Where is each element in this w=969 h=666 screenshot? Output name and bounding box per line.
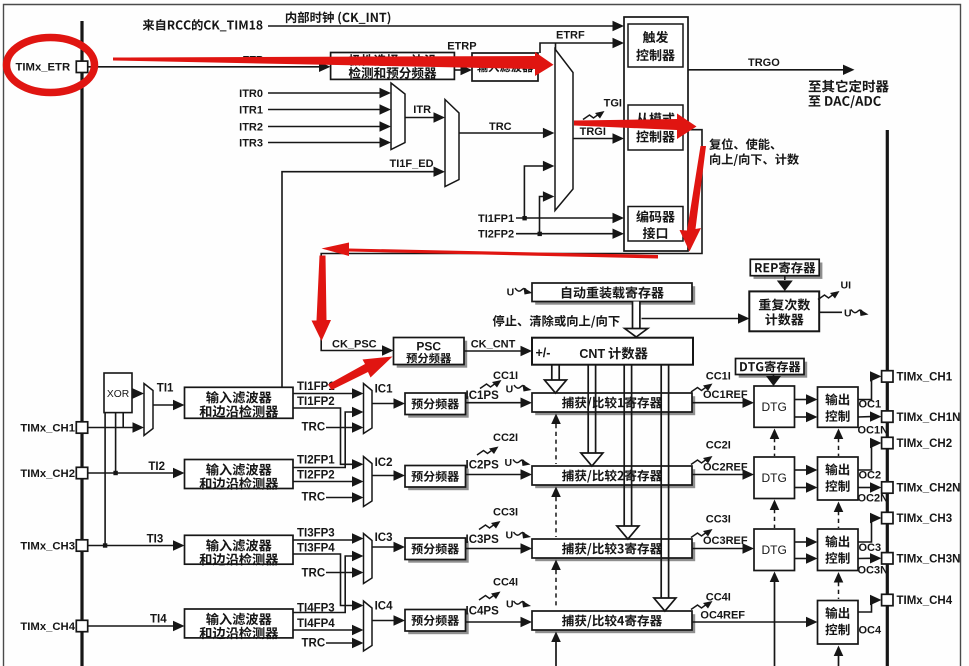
wire ITR1 bbox=[268, 109, 380, 111]
junction XOR CH2 bbox=[113, 471, 117, 475]
wire TRC row4 bbox=[326, 642, 353, 644]
svg-text:OC2N: OC2N bbox=[858, 493, 889, 505]
svg-text:ITR3: ITR3 bbox=[239, 137, 263, 149]
svg-text:TI2: TI2 bbox=[148, 461, 165, 473]
svg-text:TRC: TRC bbox=[302, 568, 326, 580]
wire ITR0 bbox=[268, 92, 380, 94]
svg-text:IC1: IC1 bbox=[375, 384, 394, 396]
mux TRC select bbox=[445, 100, 459, 187]
wire reset-enable control path bbox=[321, 130, 702, 351]
svg-text:ETRF: ETRF bbox=[556, 30, 585, 42]
svg-text:ITR: ITR bbox=[413, 104, 431, 116]
wire TI4 bbox=[88, 625, 173, 627]
label 来自RCC的CK_TIM18 bbox=[143, 19, 263, 31]
svg-text:CC3I: CC3I bbox=[706, 514, 731, 526]
svg-text:IC3: IC3 bbox=[375, 532, 393, 544]
wire CK_CNT bbox=[464, 350, 522, 352]
svg-text:IC2PS: IC2PS bbox=[466, 460, 500, 472]
block input-filter 输入滤波器 bbox=[472, 53, 538, 81]
red annotation arrow left to CK_PSC bbox=[322, 243, 659, 259]
wire IC4 bbox=[372, 620, 395, 622]
svg-text:OC2REF: OC2REF bbox=[703, 462, 748, 474]
block DTG-register DTG寄存器 bbox=[739, 362, 808, 378]
svg-text:DTG: DTG bbox=[762, 543, 787, 557]
svg-text:IC4: IC4 bbox=[375, 601, 394, 613]
label 至DAC/ADC bbox=[809, 95, 881, 108]
block prescaler PSC 预分频器 bbox=[397, 341, 468, 368]
svg-text:TI1FP2: TI1FP2 bbox=[297, 396, 335, 408]
svg-text:TI4FP4: TI4FP4 bbox=[297, 618, 335, 630]
symbol CC2I zigzag right bbox=[691, 456, 713, 465]
wire TRGO bbox=[688, 69, 843, 71]
wire TRC bbox=[459, 132, 543, 134]
mux ITR select bbox=[391, 83, 405, 150]
wire TRC row1 bbox=[326, 427, 353, 429]
red annotation arrow into PSC bbox=[328, 357, 393, 391]
wire OC4REF bbox=[692, 621, 808, 623]
block output-control row4 输出控制 bbox=[818, 601, 859, 645]
svg-text:TRC: TRC bbox=[302, 637, 326, 649]
svg-text:TIMx_CH2N: TIMx_CH2N bbox=[897, 483, 961, 495]
svg-text:TIMx_CH1: TIMx_CH1 bbox=[20, 423, 75, 435]
block controller group bbox=[624, 17, 688, 251]
wire TI3 bbox=[88, 545, 173, 547]
mux IC1 select bbox=[364, 384, 373, 434]
svg-text:TIMx_CH3N: TIMx_CH3N bbox=[897, 554, 961, 566]
symbol TGI interrupt zigzag bbox=[583, 111, 605, 120]
svg-text:TRC: TRC bbox=[302, 492, 326, 504]
block repetition-counter 重复次数计数器 bbox=[749, 291, 819, 331]
symbol CC3I zigzag right bbox=[691, 529, 713, 538]
svg-text:CC2I: CC2I bbox=[493, 432, 518, 444]
symbol CC4I zigzag left bbox=[479, 592, 501, 601]
pin TIMx_CH4 left bbox=[76, 620, 87, 631]
pin TIMx_CH1 left bbox=[76, 422, 87, 433]
pin TIMx_CH2N right bbox=[882, 482, 893, 493]
svg-text:ITR2: ITR2 bbox=[239, 121, 263, 133]
wire IC1 bbox=[372, 403, 395, 405]
symbol CC4I zigzag right bbox=[691, 601, 713, 610]
block input-filter row2 输入滤波器和边沿检测器 bbox=[185, 460, 294, 489]
svg-text:TIMx_CH4: TIMx_CH4 bbox=[20, 621, 75, 633]
svg-text:TIMx_CH3: TIMx_CH3 bbox=[20, 541, 75, 553]
wire ETRF stub to trigger mux bbox=[555, 43, 557, 51]
svg-text:OC2: OC2 bbox=[859, 470, 882, 482]
svg-text:DTG: DTG bbox=[762, 400, 787, 414]
symbol CC1I zigzag left bbox=[480, 380, 502, 389]
mux TI1 select bbox=[144, 384, 153, 436]
symbol UI interrupt zigzag bbox=[818, 291, 840, 300]
arrow into output4 from bottom bbox=[838, 655, 840, 666]
svg-text:IC4PS: IC4PS bbox=[466, 606, 500, 618]
svg-text:TIMx_ETR: TIMx_ETR bbox=[16, 61, 71, 73]
wire DTG2 to output lower bbox=[795, 487, 808, 489]
svg-text:OC3: OC3 bbox=[859, 542, 882, 554]
wire TIMx_CH1 input bbox=[88, 427, 136, 429]
block input-filter row4 输入滤波器和边沿检测器 bbox=[185, 609, 294, 638]
svg-text:OC1N: OC1N bbox=[858, 425, 889, 437]
svg-text:PSC: PSC bbox=[416, 340, 441, 354]
wire TI1F_ED bbox=[282, 172, 434, 388]
block prescaler row1 预分频器 bbox=[408, 396, 469, 418]
wire TRC row2 bbox=[326, 497, 353, 499]
symbol CC3I zigzag left bbox=[479, 521, 501, 530]
hollow arrow CNT to capture3 bbox=[623, 365, 625, 527]
dashed arrow into output1 bbox=[838, 438, 840, 456]
svg-text:TI3: TI3 bbox=[147, 534, 164, 546]
wire DTG register to DTG1 bbox=[773, 375, 775, 379]
wire OC1REF bbox=[692, 402, 744, 404]
wire TI3FP4 riser down bbox=[293, 554, 353, 606]
block polarity-select 极性选择边沿检测和预分频器 bbox=[331, 53, 455, 80]
svg-text:CK_CNT: CK_CNT bbox=[471, 338, 516, 350]
wire OC2 to pin bbox=[858, 443, 873, 470]
wire XOR input from CH1 bbox=[122, 413, 124, 428]
wire OC3 to pin bbox=[858, 518, 873, 542]
wire TRGI bbox=[573, 138, 613, 140]
block DTG row1 bbox=[754, 386, 795, 427]
svg-text:TIMx_CH1: TIMx_CH1 bbox=[897, 372, 953, 384]
mux IC4 select bbox=[364, 601, 373, 651]
dashed arrow into capture1 bbox=[555, 424, 557, 464]
block output-control row1 输出控制 bbox=[818, 387, 859, 427]
wire TI1FP1 to trigger mux bbox=[524, 166, 543, 218]
dashed arrow into DTG1 bbox=[774, 438, 776, 456]
svg-text:OC3REF: OC3REF bbox=[703, 535, 748, 547]
svg-text:TIMx_CH1N: TIMx_CH1N bbox=[897, 412, 961, 424]
wire TI1 bbox=[153, 404, 173, 406]
wire OC4 to pin bbox=[858, 600, 873, 612]
wire OC1N to pin bbox=[858, 416, 871, 418]
wire ITR2 bbox=[268, 126, 380, 128]
svg-text:UI: UI bbox=[841, 280, 852, 292]
dashed arrow into capture2 bbox=[555, 497, 557, 537]
hollow arrow ARR to CNT bbox=[633, 302, 640, 330]
svg-text:TIMx_CH2: TIMx_CH2 bbox=[897, 438, 953, 450]
block input-filter row1 输入滤波器和边沿检测器 bbox=[185, 387, 294, 418]
wire TI1FP1 bbox=[293, 393, 353, 395]
wire ITR3 bbox=[268, 142, 380, 144]
red annotation arrow ETR path bbox=[113, 52, 554, 76]
svg-text:U: U bbox=[844, 307, 852, 319]
svg-text:U: U bbox=[506, 383, 514, 395]
mux IC2 select bbox=[364, 457, 373, 507]
block REP-register REP寄存器 bbox=[754, 263, 823, 279]
wire TRC row3 bbox=[326, 572, 353, 574]
block output-control row3 输出控制 bbox=[818, 529, 859, 571]
wire TI2FP1 riser up bbox=[293, 412, 353, 468]
wire TI2 bbox=[88, 472, 173, 474]
wire TI1FP1 bbox=[516, 217, 613, 219]
label 至其它定时器 bbox=[809, 80, 889, 93]
dashed arrow into output2 bbox=[838, 511, 840, 528]
block prescaler row4 预分频器 bbox=[408, 613, 469, 635]
wire TI2FP2 bbox=[293, 481, 353, 483]
wire TI4FP3 riser up bbox=[293, 556, 353, 613]
svg-text:TIMx_CH4: TIMx_CH4 bbox=[897, 595, 953, 607]
block prescaler row3 预分频器 bbox=[408, 541, 469, 563]
hollow arrow CNT to capture1 bbox=[551, 365, 553, 381]
block encoder-interface 编码器接口 bbox=[628, 207, 683, 242]
wire TI3FP3 bbox=[293, 539, 353, 541]
svg-text:TIMx_CH2: TIMx_CH2 bbox=[20, 468, 75, 480]
arrow into DTG3 from bottom bbox=[774, 582, 776, 666]
wire DTG1 to output upper bbox=[795, 399, 808, 401]
symbol CC2I zigzag left bbox=[477, 447, 499, 456]
block slave-mode-controller 从模式控制器 bbox=[628, 105, 683, 150]
svg-text:U: U bbox=[506, 599, 514, 611]
svg-text:OC3N: OC3N bbox=[858, 565, 889, 577]
dashed arrow into DTG2 bbox=[774, 509, 776, 528]
dashed arrow into output3 bbox=[838, 582, 840, 599]
wire OC3REF bbox=[692, 548, 744, 550]
wire ETRP bbox=[454, 69, 463, 71]
svg-text:CC1I: CC1I bbox=[493, 370, 518, 382]
arrow into capture4 from bottom bbox=[555, 641, 557, 666]
block trigger-controller 触发控制器 bbox=[628, 24, 683, 67]
block XOR bbox=[104, 373, 132, 413]
svg-text:TI3FP4: TI3FP4 bbox=[297, 543, 335, 555]
label 内部时钟(CK_INT) bbox=[286, 11, 390, 24]
label 向上向下计数 bbox=[710, 153, 799, 166]
svg-text:CK_PSC: CK_PSC bbox=[332, 338, 377, 350]
block output-control row2 输出控制 bbox=[818, 457, 859, 500]
wire CK_INT bbox=[268, 25, 615, 27]
wire TI1FP2 riser down bbox=[293, 408, 353, 464]
block capture-compare row2 捕获/比较2寄存器 bbox=[535, 469, 695, 488]
wire XOR output bbox=[132, 393, 136, 395]
label 复位使能 bbox=[709, 138, 774, 150]
hollow arrow CNT to capture2 bbox=[587, 365, 589, 454]
svg-text:IC2: IC2 bbox=[375, 457, 393, 469]
svg-text:TGI: TGI bbox=[604, 98, 622, 110]
junction XOR CH3 bbox=[103, 543, 107, 547]
dashed arrow into capture3 bbox=[555, 570, 557, 609]
wire TI4FP4 bbox=[293, 629, 353, 631]
svg-text:TI2FP2: TI2FP2 bbox=[478, 229, 514, 241]
svg-text:+/-: +/- bbox=[536, 346, 551, 360]
block input-filter row3 输入滤波器和边沿检测器 bbox=[185, 535, 294, 564]
svg-text:OC4REF: OC4REF bbox=[700, 610, 745, 622]
wire XOR input from CH2 bbox=[115, 413, 117, 473]
wire ETRF bbox=[540, 43, 615, 53]
pin TIMx_CH2 left bbox=[76, 467, 87, 478]
svg-text:U: U bbox=[507, 287, 515, 299]
svg-text:ITR1: ITR1 bbox=[239, 104, 263, 116]
wire IC1PS to capture bbox=[466, 402, 522, 404]
pin TIMx_CH4 right bbox=[882, 594, 893, 605]
pin TIMx_CH3N right bbox=[882, 553, 893, 564]
svg-text:CC2I: CC2I bbox=[706, 440, 731, 452]
wire to repetition counter bbox=[642, 318, 739, 320]
svg-text:IC1PS: IC1PS bbox=[466, 390, 500, 402]
svg-text:TI3FP3: TI3FP3 bbox=[297, 528, 335, 540]
svg-text:CC3I: CC3I bbox=[493, 507, 518, 519]
svg-text:ETRP: ETRP bbox=[447, 40, 476, 52]
wire IC2 bbox=[372, 475, 395, 477]
wire OC3N to pin bbox=[858, 557, 871, 559]
red annotation arrow slave mode bbox=[574, 114, 697, 140]
wire IC3PS to capture bbox=[466, 548, 522, 550]
red annotation ellipse TIMx_ETR bbox=[7, 38, 95, 93]
red annotation arrow down to CK_PSC bbox=[312, 256, 332, 342]
svg-text:TRC: TRC bbox=[302, 422, 326, 434]
svg-text:CNT: CNT bbox=[579, 347, 605, 361]
junction TI1FP1 bbox=[522, 216, 526, 220]
svg-text:TI1F_ED: TI1F_ED bbox=[390, 158, 434, 170]
svg-text:CC4I: CC4I bbox=[493, 577, 518, 589]
pin TIMx_CH3 left bbox=[76, 540, 87, 551]
svg-text:TI2FP1: TI2FP1 bbox=[297, 455, 335, 467]
block DTG row3 bbox=[754, 529, 795, 571]
wire IC2PS to capture bbox=[466, 474, 522, 476]
left pin rail bbox=[80, 21, 83, 666]
pin TIMx_ETR bbox=[76, 61, 87, 72]
wire OC2N to pin bbox=[858, 487, 871, 489]
block capture-compare row4 捕获/比较4寄存器 bbox=[535, 614, 695, 633]
wire OC1 to pin bbox=[858, 376, 873, 399]
svg-text:TRC: TRC bbox=[489, 121, 512, 133]
pin TIMx_CH3 right bbox=[882, 512, 893, 523]
svg-text:U: U bbox=[505, 457, 513, 469]
wire TI2FP2 bbox=[516, 233, 613, 235]
svg-text:U: U bbox=[506, 530, 514, 542]
wire DTG2 to output upper bbox=[795, 469, 808, 471]
pin TIMx_CH2 right bbox=[882, 437, 893, 448]
block capture-compare row1 捕获/比较1寄存器 bbox=[535, 396, 695, 415]
block DTG row2 bbox=[754, 457, 795, 499]
svg-text:CC1I: CC1I bbox=[706, 371, 731, 383]
symbol CC1I zigzag right bbox=[691, 384, 713, 393]
label 停止清除或向上向下 bbox=[493, 315, 620, 328]
pin TIMx_CH1 right bbox=[882, 371, 893, 382]
svg-text:TI4: TI4 bbox=[150, 614, 167, 626]
svg-text:TI2FP2: TI2FP2 bbox=[297, 470, 335, 482]
svg-text:TRGO: TRGO bbox=[748, 57, 780, 69]
right pin rail bbox=[886, 130, 889, 666]
block auto-reload-register 自动重装载寄存器 bbox=[535, 286, 695, 305]
svg-text:TRGI: TRGI bbox=[580, 126, 606, 138]
wire DTG3 to output upper bbox=[795, 541, 808, 543]
svg-text:IC3PS: IC3PS bbox=[466, 534, 500, 546]
block capture-compare row3 捕获/比较3寄存器 bbox=[535, 542, 695, 561]
mux IC3 select bbox=[364, 534, 373, 584]
wire IC3 bbox=[372, 546, 395, 548]
junction TI2FP2 bbox=[538, 232, 542, 236]
svg-text:OC4: OC4 bbox=[859, 625, 883, 637]
svg-text:XOR: XOR bbox=[107, 389, 129, 400]
wire TI2FP2 to trigger mux bbox=[540, 197, 544, 234]
svg-text:DTG: DTG bbox=[762, 471, 787, 485]
svg-text:TI1FP1: TI1FP1 bbox=[478, 213, 514, 225]
red annotation arrow down count bbox=[680, 146, 707, 252]
wire IC4PS to capture bbox=[466, 621, 522, 623]
svg-text:TI1: TI1 bbox=[157, 383, 174, 395]
hollow arrow CNT to capture4 bbox=[660, 365, 662, 599]
wire ETR bbox=[88, 66, 319, 68]
wire REP to repetition counter bbox=[784, 276, 786, 280]
svg-text:OC1: OC1 bbox=[859, 399, 882, 411]
wire OC2REF bbox=[692, 474, 744, 476]
wire DTG3 to output lower bbox=[795, 558, 808, 560]
block prescaler row2 预分频器 bbox=[408, 469, 469, 491]
wire XOR input from CH3 bbox=[104, 413, 106, 546]
wire DTG1 to output lower bbox=[795, 416, 808, 418]
pin TIMx_CH1N right bbox=[882, 411, 893, 422]
svg-text:OC1REF: OC1REF bbox=[703, 389, 748, 401]
svg-text:TIMx_CH3: TIMx_CH3 bbox=[897, 513, 953, 525]
svg-text:ITR0: ITR0 bbox=[239, 88, 263, 100]
wire U event out bbox=[819, 311, 842, 313]
mux trigger select bbox=[555, 49, 573, 211]
wire ITR bbox=[405, 117, 434, 119]
block counter CNT 计数器 bbox=[532, 338, 693, 365]
